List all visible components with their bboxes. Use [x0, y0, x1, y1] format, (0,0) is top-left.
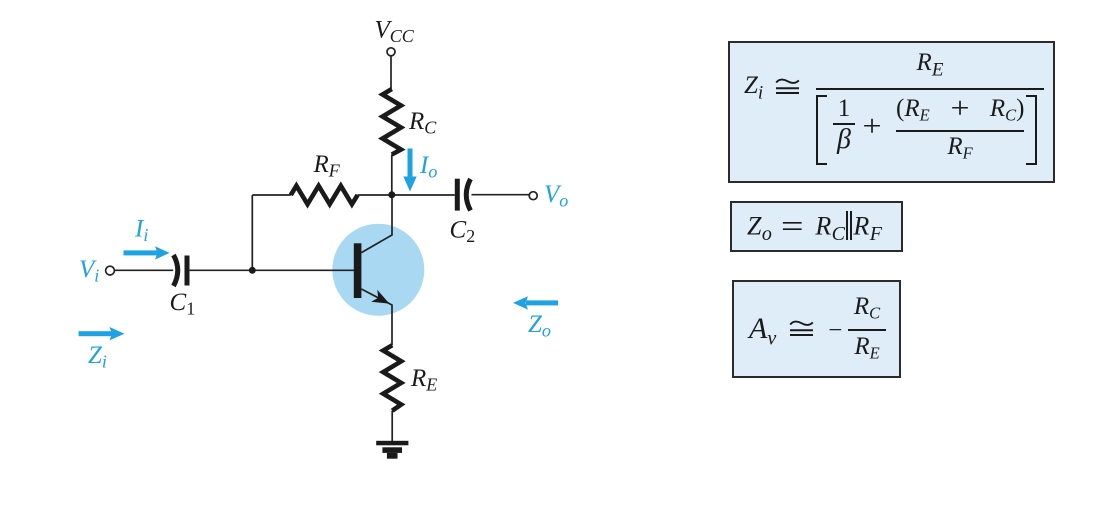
svg-text:C2: C2: [450, 217, 476, 247]
svg-text:C1: C1: [170, 289, 196, 319]
svg-text:RE: RE: [410, 365, 437, 395]
svg-text:Ii: Ii: [134, 216, 148, 246]
svg-text:Vo: Vo: [544, 181, 568, 211]
svg-text:RF: RF: [313, 151, 341, 181]
svg-text:Io: Io: [419, 152, 437, 182]
svg-text:Zi: Zi: [88, 342, 107, 372]
svg-text:Vi: Vi: [79, 256, 99, 286]
svg-text:Zo: Zo: [528, 311, 551, 341]
svg-text:RC: RC: [408, 108, 437, 138]
svg-text:VCC: VCC: [375, 17, 415, 47]
